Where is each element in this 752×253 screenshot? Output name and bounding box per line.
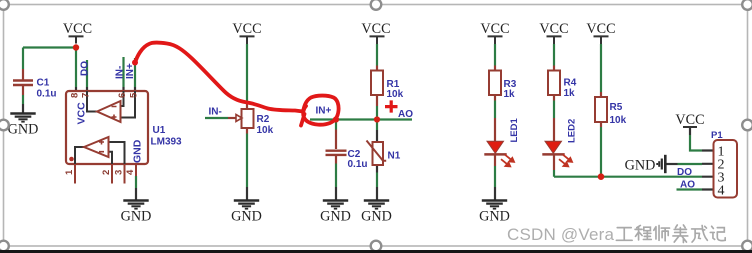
svg-text:VCC: VCC xyxy=(675,112,704,128)
svg-text:P1: P1 xyxy=(711,130,723,141)
svg-text:GND: GND xyxy=(231,209,262,225)
svg-text:LED1: LED1 xyxy=(509,118,520,143)
svg-text:10k: 10k xyxy=(257,125,274,136)
svg-text:10k: 10k xyxy=(387,89,404,100)
svg-text:3: 3 xyxy=(114,170,125,175)
svg-text:R2: R2 xyxy=(257,114,270,125)
svg-text:IN-: IN- xyxy=(115,66,126,79)
svg-text:U1: U1 xyxy=(153,125,166,136)
svg-text:VCC: VCC xyxy=(232,21,261,37)
svg-text:1: 1 xyxy=(64,169,75,175)
svg-text:4: 4 xyxy=(718,184,725,199)
svg-text:GND: GND xyxy=(320,209,351,225)
svg-text:5: 5 xyxy=(128,92,139,98)
svg-text:CSDN @Vera: CSDN @Vera xyxy=(507,225,614,244)
svg-text:VCC: VCC xyxy=(63,21,92,37)
svg-text:1k: 1k xyxy=(564,88,576,99)
svg-text:0.1u: 0.1u xyxy=(348,159,368,170)
svg-text:LED2: LED2 xyxy=(567,119,578,143)
svg-text:6: 6 xyxy=(117,93,128,98)
svg-text:GND: GND xyxy=(132,139,144,163)
svg-text:VCC: VCC xyxy=(586,21,615,37)
svg-text:R4: R4 xyxy=(564,78,577,89)
svg-text:10k: 10k xyxy=(610,115,627,126)
svg-text:0.1u: 0.1u xyxy=(37,89,57,100)
svg-text:IN-: IN- xyxy=(209,107,222,118)
svg-text:VCC: VCC xyxy=(361,21,390,37)
svg-text:GND: GND xyxy=(361,209,392,225)
svg-text:C1: C1 xyxy=(37,78,50,89)
svg-text:DO: DO xyxy=(677,167,692,178)
svg-text:GND: GND xyxy=(8,122,39,138)
svg-text:AO: AO xyxy=(680,180,695,191)
svg-text:GND: GND xyxy=(479,209,510,225)
svg-text:DO: DO xyxy=(80,61,91,76)
svg-text:2: 2 xyxy=(101,170,112,175)
svg-text:8: 8 xyxy=(69,93,80,98)
svg-text:LM393: LM393 xyxy=(151,137,183,148)
svg-text:1k: 1k xyxy=(504,89,516,100)
svg-text:GND: GND xyxy=(121,209,152,225)
svg-text:4: 4 xyxy=(125,169,136,175)
svg-text:GND: GND xyxy=(625,158,656,174)
svg-text:R5: R5 xyxy=(610,102,623,113)
svg-text:VCC: VCC xyxy=(76,102,88,125)
svg-text:VCC: VCC xyxy=(539,21,568,37)
svg-text:7: 7 xyxy=(80,93,91,98)
svg-text:VCC: VCC xyxy=(480,21,509,37)
svg-text:IN+: IN+ xyxy=(316,106,332,117)
svg-text:N1: N1 xyxy=(388,151,401,162)
svg-text:AO: AO xyxy=(398,109,413,120)
